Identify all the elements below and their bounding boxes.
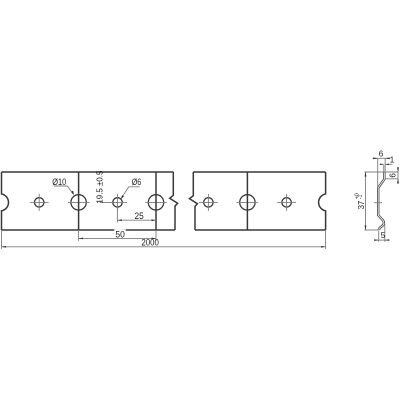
strip bottom edge right portion <box>195 229 326 231</box>
centermark hole big 2 <box>145 201 167 203</box>
dimension 37 extension bottom <box>365 229 379 231</box>
hole Ø6 small 2 <box>113 198 122 207</box>
dimension 25 extension <box>116 208 118 223</box>
svg-text:2000: 2000 <box>141 237 158 248</box>
dimension 37 arrows <box>365 172 367 230</box>
section line through big hole 3 <box>246 172 248 230</box>
dimension 37 extension top <box>365 171 399 173</box>
hole Ø10 big 3 <box>240 195 255 210</box>
centermark hole 3 <box>199 194 218 211</box>
dimension 25 arrows <box>117 219 156 221</box>
svg-text:6: 6 <box>389 173 398 178</box>
svg-text:5: 5 <box>381 231 386 240</box>
svg-text:1: 1 <box>390 155 395 164</box>
side view center tick <box>374 202 382 204</box>
dimension 6 top extensions <box>378 158 385 188</box>
dimension 37 line <box>365 172 367 230</box>
leader Ø6 <box>123 187 140 197</box>
svg-text:25: 25 <box>135 211 144 221</box>
dimension 5 extensions <box>379 224 385 242</box>
dimension 6 top line <box>373 157 391 159</box>
side view profile outer <box>378 172 384 230</box>
strip top edge right portion <box>193 171 325 173</box>
svg-text:19.5 ±0.5: 19.5 ±0.5 <box>96 170 105 203</box>
dimension 1 line <box>380 163 393 165</box>
strip top edge left portion <box>2 171 174 173</box>
centermark hole 1 <box>30 194 49 211</box>
leader arrow Ø6 <box>121 195 124 199</box>
hole Ø6 small 4 <box>282 198 291 207</box>
leader Ø10 <box>54 186 73 194</box>
dimension 1 arrows <box>380 164 389 165</box>
dimension 19.5 text mask <box>95 173 103 200</box>
break line right <box>190 172 198 230</box>
dimension 5 line <box>374 239 389 241</box>
strip right edge with half-notch <box>319 172 326 230</box>
svg-text:-1: -1 <box>358 194 364 199</box>
dimension 25 line <box>117 219 156 221</box>
svg-text:50: 50 <box>115 229 124 239</box>
dimension 2000 arrows <box>2 246 326 248</box>
centermark hole 4 <box>277 194 296 211</box>
dimension 6 right arrows <box>397 168 399 184</box>
section line through big hole 1 <box>78 172 80 230</box>
dimension 19.5 line <box>100 172 112 202</box>
strip bottom edge left portion <box>2 229 176 231</box>
dimension 2000 line <box>2 246 326 248</box>
hole Ø6 small 1 <box>35 198 44 207</box>
hole Ø10 big 1 <box>71 195 86 210</box>
dimension 6 top arrows <box>373 158 389 160</box>
dimension 6 right extension bottom <box>386 178 399 180</box>
centermark hole big 1 <box>68 201 90 203</box>
dimension 50 text mask <box>114 229 126 237</box>
dimension 50 extensions <box>79 230 156 241</box>
leader arrow Ø10 <box>71 191 74 196</box>
svg-text:Ø10: Ø10 <box>52 177 66 187</box>
svg-text:Ø6: Ø6 <box>132 177 142 187</box>
svg-text:6: 6 <box>379 150 384 159</box>
side view profile inner white <box>378 172 384 230</box>
dimension 19.5 text <box>96 170 105 203</box>
dimension 2000 extensions <box>2 230 326 249</box>
break line left <box>170 172 178 230</box>
svg-text:37: 37 <box>357 201 366 210</box>
dimension 5 arrows <box>374 239 389 241</box>
section line through big hole 2 <box>155 172 157 230</box>
hole Ø10 big 2 <box>148 195 163 210</box>
dimension 19.5 arrows <box>99 172 101 202</box>
centermark hole big 3 <box>237 201 259 203</box>
hole Ø6 small 3 <box>204 198 213 207</box>
dimension 6 right line <box>397 167 399 184</box>
dimension 6 right text <box>389 173 398 178</box>
dimension 37 text <box>355 193 367 209</box>
centermark hole 2 <box>108 194 127 211</box>
strip left edge with half-notch <box>2 172 9 230</box>
dimension 50 arrows <box>79 238 156 240</box>
dimension 50 line <box>79 237 156 239</box>
